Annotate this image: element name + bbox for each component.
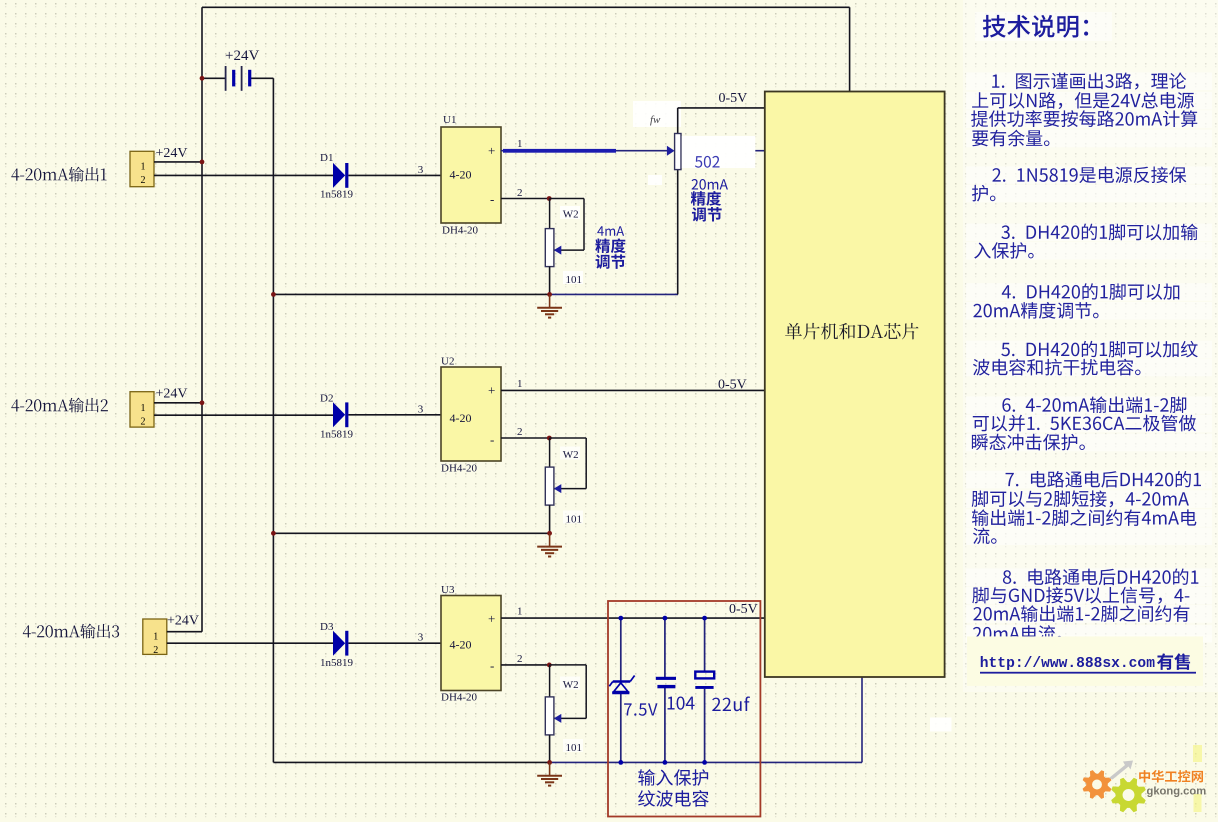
label input protection <box>638 769 708 786</box>
svg-text:1: 1 <box>517 606 523 618</box>
paragraph line 9 <box>1002 283 1180 300</box>
svg-text:1: 1 <box>517 378 523 390</box>
junction gnd row1 <box>547 292 552 297</box>
paragraph line 11 <box>1001 341 1198 358</box>
paragraph line 10 <box>973 302 1098 319</box>
wire gnd row1 right navy <box>550 293 678 295</box>
wire gnd row2 <box>273 532 549 534</box>
paragraph line 23 <box>973 625 1062 642</box>
junction row1 +24V <box>200 160 205 165</box>
svg-text:101: 101 <box>566 742 583 754</box>
white patch behind 101 row1 <box>563 271 583 284</box>
wire J2 pin2 to D2 <box>154 414 333 416</box>
potentiometer W2 row1 <box>549 199 551 229</box>
wire 502 bottom to gnd <box>677 170 679 295</box>
svg-text:1: 1 <box>141 403 146 414</box>
diode D3 <box>333 631 345 656</box>
svg-text:DH4-20: DH4-20 <box>441 463 478 475</box>
diode D1 <box>333 163 345 188</box>
svg-text:0-5V: 0-5V <box>718 378 747 393</box>
svg-text:1n5819: 1n5819 <box>320 429 354 441</box>
junction gnd row2 <box>547 531 552 536</box>
junction return rail row1 <box>271 292 276 297</box>
label tiaojie 4mA <box>596 254 626 269</box>
junction U2 pin2/W2 <box>547 436 552 441</box>
svg-text:4-20: 4-20 <box>450 638 472 652</box>
svg-text:U2: U2 <box>441 356 454 368</box>
wire gnd row1 left <box>273 293 549 295</box>
white patch behind 101 row3 <box>563 739 583 752</box>
svg-text:+: + <box>488 143 495 158</box>
svg-text:U1: U1 <box>443 114 456 126</box>
label 104 <box>668 696 695 709</box>
white patch right of MCU <box>930 718 952 732</box>
white patch above 502 pot <box>633 101 681 127</box>
svg-text:1n5819: 1n5819 <box>320 189 354 201</box>
svg-text:3: 3 <box>418 403 424 415</box>
label MCU and DA chip <box>785 323 918 340</box>
junction row2 +24V <box>200 400 205 405</box>
wire 0-5V row1 to MCU <box>678 107 765 109</box>
wire +24V vertical rail <box>201 7 203 631</box>
wire +24V top rail <box>202 6 850 8</box>
svg-text:0-5V: 0-5V <box>719 91 748 106</box>
junction 22uf bottom <box>702 760 707 765</box>
paragraph line 2 <box>972 92 1194 109</box>
wire D2 to U2 pin3 <box>348 414 441 416</box>
connector J1 pins 1-2 <box>130 151 154 186</box>
svg-text:W2: W2 <box>563 449 579 461</box>
junction U1 pin2/W2 <box>547 196 552 201</box>
label 20mA adjust <box>692 179 728 190</box>
paragraph line 5 <box>992 166 1186 183</box>
title technical notes <box>983 15 1088 38</box>
svg-text:3: 3 <box>418 164 424 176</box>
svg-text:+24V: +24V <box>156 387 188 402</box>
white patch over wire right of 502 <box>682 136 756 168</box>
svg-text:-: - <box>490 432 494 447</box>
svg-text:http://www.888sx.com: http://www.888sx.com <box>980 656 1155 672</box>
svg-text:+24V: +24V <box>156 146 188 161</box>
URL box <box>967 636 1203 686</box>
svg-text:2: 2 <box>153 645 158 656</box>
white patch behind W2 row3 <box>560 677 580 690</box>
paragraph line 12 <box>973 359 1141 376</box>
junction battery/+24V rail <box>200 76 205 81</box>
ground row3 <box>537 762 562 785</box>
wire gnd row3 right navy <box>550 761 862 763</box>
paragraph line 16 <box>1006 471 1201 488</box>
label 22uf <box>712 696 750 711</box>
svg-text:-: - <box>490 658 494 673</box>
svg-text:2: 2 <box>141 416 146 427</box>
paragraph line 18 <box>972 509 1196 526</box>
junction 104 top <box>663 616 668 621</box>
wire 502 top to 0-5V <box>677 108 679 134</box>
svg-text:1n5819: 1n5819 <box>320 657 354 669</box>
right panel background <box>963 0 1218 692</box>
wire U2 pin1 to MCU 0-5V <box>501 389 765 391</box>
wire MCU supply drop <box>849 7 851 91</box>
capacitor 22uf polarized <box>695 618 714 762</box>
white patch behind W2 row1 <box>560 206 580 219</box>
wire W2 bottom to gnd row3 <box>549 735 551 763</box>
paragraph line 8 <box>974 242 1034 259</box>
label 502 <box>695 156 720 168</box>
label youshou <box>1157 653 1190 670</box>
svg-text:+: + <box>488 611 495 626</box>
label 4mA adjust <box>597 226 624 236</box>
paragraph line 14 <box>973 415 1196 432</box>
svg-text:1: 1 <box>517 138 523 150</box>
junction gnd row3 <box>547 760 552 765</box>
junction return rail row2 <box>271 531 276 536</box>
junction zener bottom <box>618 760 623 765</box>
svg-text:D3: D3 <box>320 621 334 633</box>
white patch left of 502 pot <box>648 175 662 185</box>
junction U3 pin2/W2 <box>547 663 552 668</box>
label 7.5V <box>624 703 657 715</box>
wire J1 pin1 to +24V rail <box>154 161 202 163</box>
logo gear green <box>1111 778 1146 813</box>
svg-text:fw: fw <box>650 114 661 126</box>
paragraph line 22 <box>973 605 1189 622</box>
ground row1 <box>537 294 562 317</box>
capacitor 104 <box>656 618 676 762</box>
wire W2 bottom to gnd row1 <box>549 267 551 295</box>
zener diode 7.5V <box>609 618 634 762</box>
svg-text:-: - <box>490 192 494 207</box>
potentiometer W2 row3 <box>549 665 551 697</box>
white patch behind 101 row2 <box>563 511 583 524</box>
white patch behind W2 row2 <box>560 447 580 460</box>
label 4-20mA output 3 <box>23 624 119 639</box>
paragraph line 17 <box>972 490 1189 507</box>
ground row2 <box>537 533 562 556</box>
module U2 DH4-20 <box>441 367 501 461</box>
svg-text:DH4-20: DH4-20 <box>442 225 479 237</box>
svg-text:2: 2 <box>517 426 523 438</box>
wire J1 pin2 to D1 <box>154 174 333 176</box>
svg-text:0-5V: 0-5V <box>729 602 758 617</box>
paragraph line 6 <box>972 185 996 202</box>
svg-text:4-20: 4-20 <box>450 411 472 425</box>
label 4-20mA output 2 <box>11 398 108 413</box>
wire return rail vertical <box>272 78 274 762</box>
svg-text:2: 2 <box>517 187 523 199</box>
paragraph line 7 <box>1001 224 1197 241</box>
junction 104 bottom <box>663 760 668 765</box>
module U3 DH4-20 <box>441 596 501 691</box>
URL underline <box>980 672 1196 674</box>
label jingdu 4mA <box>595 238 625 253</box>
junction 22uf top <box>702 616 707 621</box>
right panel line bands <box>966 12 1212 643</box>
svg-text:101: 101 <box>566 514 583 526</box>
wire U2 pin2 to W2 <box>501 437 549 439</box>
paragraph line 3 <box>971 110 1197 127</box>
label 4-20mA output 1 <box>11 167 106 182</box>
paragraph line 1 <box>992 73 1186 90</box>
svg-text:3: 3 <box>418 632 424 644</box>
connector J3 pins 1-2 <box>143 619 167 654</box>
paragraph line 15 <box>972 434 1085 451</box>
svg-text:1: 1 <box>141 162 146 173</box>
wire thick overlay U1 pin1 <box>503 149 616 153</box>
junction zener top <box>618 616 623 621</box>
wire gnd row3 left <box>273 761 549 763</box>
wire J3 pin2 to D3 <box>167 642 333 644</box>
logo arrow <box>1109 761 1133 780</box>
potentiometer W2 row2 <box>549 438 551 467</box>
svg-text:D2: D2 <box>320 393 333 405</box>
label tiaojie 20mA <box>692 207 722 222</box>
svg-text:W2: W2 <box>563 679 579 691</box>
diode D2 <box>333 402 345 427</box>
wire D3 to U3 pin3 <box>348 642 441 644</box>
svg-text:+24V: +24V <box>225 48 259 64</box>
svg-text:DH4-20: DH4-20 <box>441 692 478 704</box>
wire U3 pin2 to W2 <box>501 664 549 666</box>
wire W2 bottom to gnd row2 <box>549 505 551 533</box>
label ripple capacitor <box>638 790 709 807</box>
svg-text:2: 2 <box>517 653 523 665</box>
svg-text:U3: U3 <box>441 584 455 596</box>
connector J2 pins 1-2 <box>130 392 154 427</box>
svg-text:+24V: +24V <box>167 614 199 629</box>
wire U1 pin2 to W2 <box>501 198 549 200</box>
svg-text:D1: D1 <box>320 152 333 164</box>
svg-text:1: 1 <box>153 632 158 643</box>
MCU and DA chip block <box>765 92 945 678</box>
wire D1 to U1 pin3 <box>348 174 441 176</box>
paragraph line 4 <box>972 130 1049 147</box>
paragraph line 13 <box>1002 396 1186 413</box>
wire U3 pin1 to MCU 0-5V <box>501 617 765 619</box>
wire stub 0-5V row1 at MCU <box>755 150 765 152</box>
svg-text:101: 101 <box>566 274 583 286</box>
paragraph line 19 <box>973 528 997 545</box>
paragraph line 21 <box>972 587 1189 604</box>
svg-text:W2: W2 <box>563 209 579 221</box>
battery +24V <box>202 66 273 91</box>
yellow strip right edge <box>1193 745 1202 762</box>
paragraph line 20 <box>1003 569 1198 586</box>
logo gear orange <box>1083 770 1112 799</box>
svg-text:+: + <box>488 383 495 398</box>
red protection box <box>608 601 760 817</box>
wire J2 pin1 to +24V rail <box>154 402 202 404</box>
wire MCU gnd drop <box>861 677 863 762</box>
svg-text:2: 2 <box>141 175 146 186</box>
wire J3 pin1 to +24V rail <box>167 631 202 633</box>
module U1 DH4-20 <box>441 127 501 223</box>
logo text zhonghua gkong <box>1139 770 1203 782</box>
wire U1 pin1 to pot 502 wiper <box>501 150 667 152</box>
potentiometer 502 20mA adjust <box>667 134 681 170</box>
svg-text:4-20: 4-20 <box>450 168 472 182</box>
label jingdu 20mA <box>691 191 721 206</box>
